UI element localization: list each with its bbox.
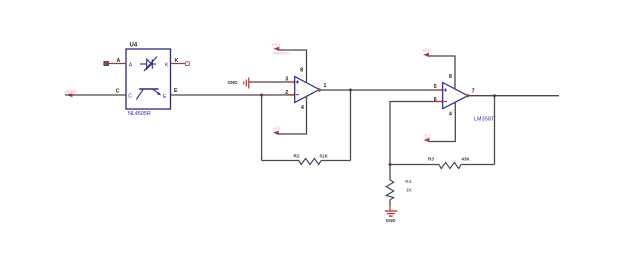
svg-text:R4: R4 — [405, 179, 411, 184]
junction node output 7 — [493, 94, 496, 97]
ground symbol — [385, 211, 398, 216]
wire -5V to pin 4 — [278, 96, 307, 134]
wire +5V to pin 8 — [279, 50, 307, 83]
svg-text:7: 7 — [472, 89, 475, 95]
wire feedback row 2 right — [461, 164, 495, 166]
pin junction X pin6 — [441, 99, 445, 103]
svg-text:K: K — [175, 58, 179, 64]
pin junction X pin5 — [441, 88, 445, 92]
pin junction X pin2 — [293, 93, 297, 97]
svg-text:+5V: +5V — [272, 43, 282, 49]
LED diode inside U4 — [140, 57, 157, 71]
pin junction X pin3 — [293, 80, 297, 84]
power symbol -5V (op1 bottom) — [273, 127, 281, 136]
svg-text:K: K — [165, 62, 169, 68]
pin stub red pin2 — [288, 94, 295, 96]
svg-text:R2: R2 — [294, 154, 300, 159]
wire feedback row 2 left — [390, 164, 439, 166]
faint artifact smudge under +5V wire — [272, 52, 290, 55]
svg-text:E: E — [163, 94, 167, 100]
wire feedback row 1 right — [321, 160, 351, 162]
wire +5V to op2 pin 8 — [429, 56, 455, 89]
junction node (feedback tap) — [260, 94, 263, 97]
svg-text:GND: GND — [386, 218, 396, 223]
wire R4 to ground — [389, 200, 391, 206]
pin junction X output 7 — [466, 94, 470, 98]
svg-text:3: 3 — [285, 76, 288, 82]
wire op2 pin6 net — [390, 102, 443, 165]
svg-text:5: 5 — [434, 84, 437, 90]
svg-text:E: E — [174, 88, 178, 94]
wire net E to op-amp U?A pin 2 — [171, 94, 295, 96]
svg-text:LM358T: LM358T — [474, 116, 495, 122]
plus mark op2 — [444, 88, 447, 91]
op-amp U?B triangle — [443, 83, 468, 109]
svg-text:8: 8 — [300, 68, 303, 74]
wire feedback 2 right vertical — [494, 96, 496, 165]
pin K stub — [171, 63, 186, 65]
svg-text:6: 6 — [434, 97, 437, 103]
optocoupler U4 box — [126, 49, 171, 109]
faint artifact smudge at input symbol — [65, 89, 78, 93]
phototransistor inside U4 — [136, 89, 161, 100]
power symbol +5V (left input) — [67, 90, 77, 97]
svg-text:GND: GND — [228, 80, 239, 85]
junction node feedback/R4 — [389, 163, 392, 166]
resistor R3 zigzag — [439, 162, 461, 168]
wire GND to pin 3 — [249, 81, 295, 83]
svg-text:4: 4 — [449, 112, 452, 118]
svg-text:C: C — [116, 89, 120, 95]
wire feedback left vertical — [261, 95, 263, 161]
svg-text:2: 2 — [285, 90, 288, 96]
svg-text:A: A — [117, 58, 121, 64]
pin stub red pin3 — [288, 81, 295, 83]
wire -5V to op2 pin 4 — [429, 102, 455, 142]
svg-text:R3: R3 — [428, 157, 434, 162]
plus mark — [296, 80, 299, 83]
resistor R4 zigzag (vertical) — [386, 180, 393, 200]
power symbol +5V (op2 top) — [422, 48, 432, 57]
pin stub red pin5 — [435, 89, 443, 91]
wire op2 output — [468, 95, 559, 97]
resistor R2 zigzag — [299, 158, 321, 164]
pin A stub — [108, 63, 126, 65]
terminal square K — [185, 62, 189, 66]
wire feedback row 1 left — [262, 160, 299, 162]
svg-text:4: 4 — [301, 105, 304, 111]
minus mark op2 — [444, 101, 447, 103]
svg-text:8: 8 — [449, 74, 452, 80]
svg-text:51K: 51K — [320, 154, 329, 159]
junction node output 1 — [349, 89, 352, 92]
minus mark — [296, 94, 299, 96]
svg-text:1: 1 — [324, 83, 327, 89]
pin stub red pin6 — [435, 101, 443, 103]
svg-text:A: A — [129, 63, 133, 69]
ground flag symbol (rotated) — [244, 78, 249, 89]
pin junction X output 1 — [317, 88, 321, 92]
svg-text:U4: U4 — [130, 43, 138, 49]
terminal square A — [104, 61, 109, 65]
svg-text:NL4505R: NL4505R — [128, 111, 151, 117]
svg-text:C: C — [128, 94, 132, 100]
power symbol +5V (op1 top) — [272, 43, 282, 52]
wire input net to optocoupler pin C — [65, 94, 126, 96]
power symbol -5V (op2 bottom) — [423, 134, 431, 142]
svg-text:43K: 43K — [461, 157, 470, 162]
wire feedback right vertical — [350, 90, 352, 161]
wire op1 output to op2 pin5 — [319, 89, 442, 91]
svg-text:1K: 1K — [406, 188, 413, 193]
wire to R4 — [389, 165, 391, 181]
op-amp U?A triangle — [295, 77, 320, 103]
